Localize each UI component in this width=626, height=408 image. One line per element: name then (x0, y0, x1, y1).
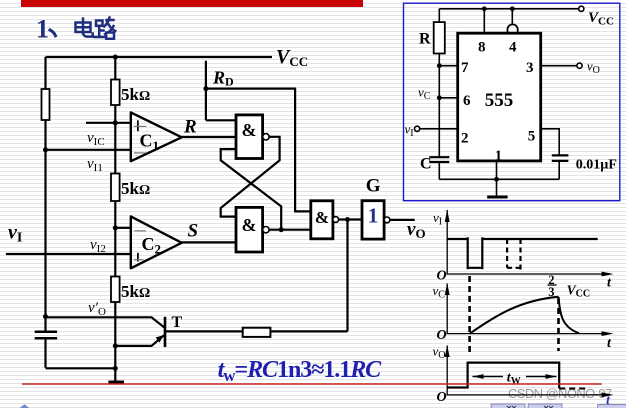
svg-text:vI: vI (405, 122, 414, 140)
svg-text:tw=RC1n3≈1.1RC: tw=RC1n3≈1.1RC (218, 357, 383, 385)
svg-text:vI: vI (433, 210, 442, 228)
svg-text:8: 8 (478, 40, 486, 56)
svg-text:2: 2 (461, 131, 469, 147)
svg-text:S: S (188, 221, 199, 242)
svg-text:O: O (437, 328, 447, 343)
svg-text:C2: C2 (142, 234, 162, 257)
svg-text:VCC: VCC (276, 46, 308, 69)
svg-text:1: 1 (495, 148, 503, 164)
svg-text:5: 5 (528, 129, 536, 145)
svg-text:3: 3 (548, 285, 554, 299)
svg-text:O: O (437, 390, 447, 405)
svg-text:0.01µF: 0.01µF (576, 157, 617, 172)
svg-text:7: 7 (461, 60, 469, 76)
svg-text:R: R (183, 117, 197, 138)
svg-text:&: & (315, 208, 329, 227)
svg-text:vO: vO (407, 219, 426, 241)
svg-text:5kΩ: 5kΩ (121, 179, 150, 198)
svg-text:1: 1 (368, 204, 379, 228)
svg-text:T: T (172, 314, 183, 331)
svg-text:5kΩ: 5kΩ (121, 85, 150, 104)
svg-text:6: 6 (463, 93, 471, 109)
svg-text:vI1: vI1 (87, 156, 103, 174)
svg-text:3: 3 (526, 60, 534, 76)
svg-text:G: G (366, 175, 381, 196)
svg-text:v′O: v′O (88, 300, 106, 318)
svg-text:t: t (607, 276, 612, 291)
svg-text:t: t (607, 336, 612, 351)
svg-text:C: C (420, 156, 432, 173)
svg-text:&: & (242, 215, 257, 235)
svg-text:vIC: vIC (87, 130, 105, 148)
svg-text:C1: C1 (140, 131, 160, 154)
svg-text:&: & (242, 120, 257, 140)
svg-text:4: 4 (509, 40, 517, 56)
svg-text:R: R (419, 31, 431, 48)
svg-text:RD: RD (212, 68, 234, 89)
svg-text:vI: vI (8, 222, 22, 246)
svg-text:VCC: VCC (567, 283, 590, 300)
svg-text:O: O (437, 268, 447, 283)
svg-text:vC: vC (433, 283, 446, 301)
svg-text:VCC: VCC (588, 10, 614, 28)
svg-text:vI2: vI2 (90, 237, 106, 255)
svg-text:555: 555 (485, 90, 514, 111)
svg-text:5kΩ: 5kΩ (121, 282, 150, 301)
svg-text:vO: vO (587, 59, 600, 77)
svg-text:1: 1 (36, 15, 49, 44)
svg-text:vC: vC (418, 85, 431, 103)
svg-text:vO: vO (433, 344, 446, 362)
